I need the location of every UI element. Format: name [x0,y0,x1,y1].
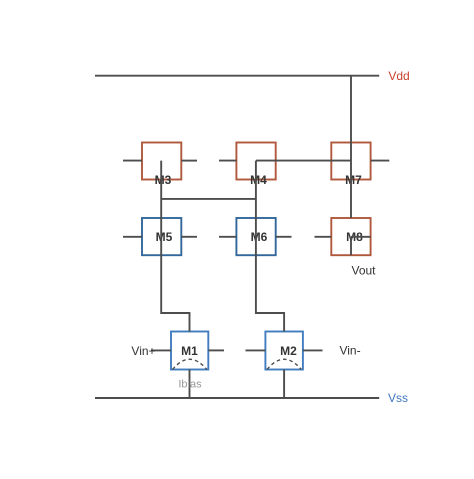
svg-text:Vss: Vss [388,391,408,405]
transistor M2 [246,332,323,370]
power rail Vss [95,397,379,399]
wire M4 drain to M7 gate [256,160,351,162]
svg-text:M7: M7 [345,173,362,187]
svg-text:M4: M4 [250,173,267,187]
svg-text:M2: M2 [280,344,297,358]
svg-text:M1: M1 [181,344,198,358]
svg-text:Vin-: Vin- [339,344,360,358]
svg-text:M5: M5 [156,230,173,244]
transistor M8 [315,218,371,255]
wire M4 drain down through M6 to jog into M2 [256,161,284,332]
svg-text:Vin+: Vin+ [131,344,155,358]
svg-text:Ibias: Ibias [178,379,202,391]
transistor M4 [219,143,276,187]
wire gate tie M3-M4 [161,198,256,200]
power rail Vdd [95,75,379,77]
wire Vdd through M7 to M8 [350,76,352,218]
wire M2 source to Vss [283,370,285,399]
transistor M7 [331,143,389,187]
transistor M3 [123,143,197,187]
transistor M1 [151,332,224,370]
svg-text:M3: M3 [155,173,172,187]
svg-text:Vout: Vout [351,264,376,278]
wire M1 source to Vss [189,370,191,399]
svg-text:Vdd: Vdd [388,69,409,83]
svg-text:M6: M6 [251,230,268,244]
wire M3 drain down through M5 to jog into M1 [161,161,189,332]
transistor M6 [219,218,292,255]
transistor M5 [123,218,197,255]
